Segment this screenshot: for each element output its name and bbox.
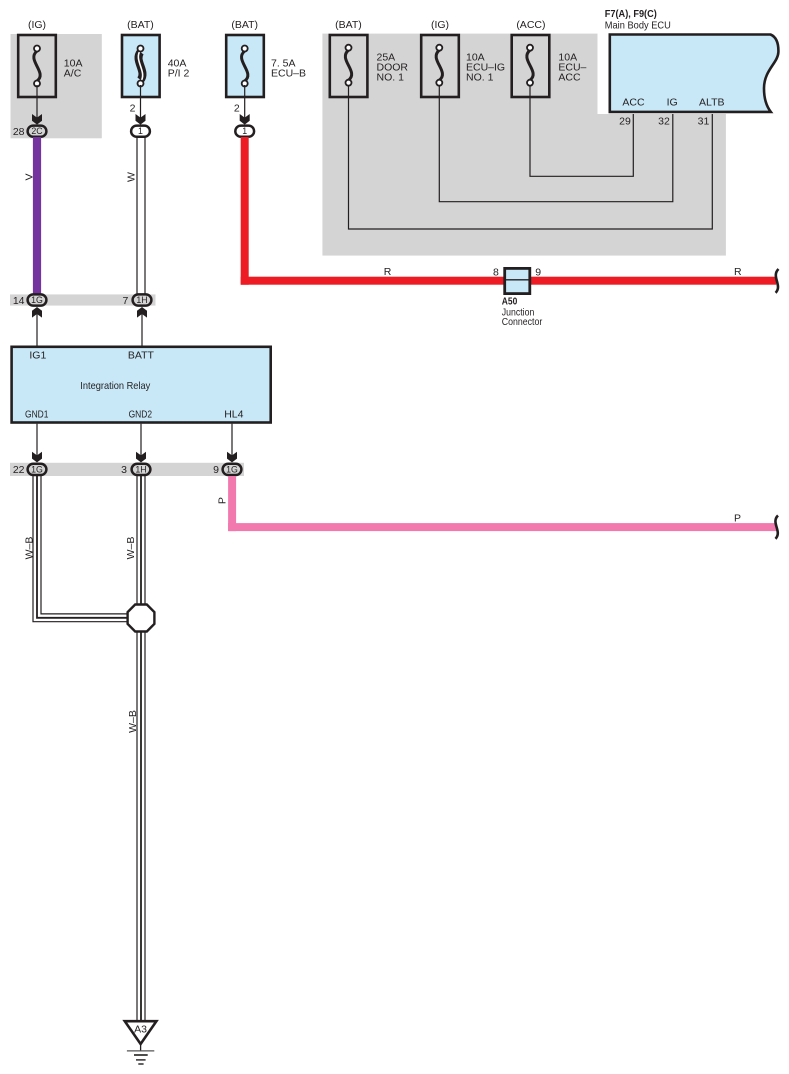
gray band behind connectors 22(1G) 3(1H) 9(1G) [10, 463, 244, 476]
svg-text:GND2: GND2 [129, 408, 153, 420]
svg-text:(IG): (IG) [28, 19, 46, 31]
gray band behind connectors 14(1G) 7(1H) [10, 294, 156, 305]
svg-text:2: 2 [130, 103, 136, 115]
svg-text:(BAT): (BAT) [127, 19, 154, 31]
svg-text:(ACC): (ACC) [516, 19, 545, 31]
svg-text:8: 8 [493, 266, 499, 278]
svg-text:(BAT): (BAT) [231, 19, 258, 31]
svg-text:W–B: W–B [127, 710, 139, 733]
wire fuse F3 pin 2 to connector 1 with arrow [234, 85, 250, 125]
svg-text:IG1: IG1 [29, 350, 46, 362]
svg-text:3: 3 [121, 464, 127, 476]
fuse F2 40A P/I 2 (BAT) [122, 19, 189, 97]
white backing behind Main Body ECU [598, 30, 789, 114]
connector 1 (below 40A fuse) [131, 126, 150, 137]
wire red R from connector 1 to right edge [241, 137, 777, 285]
svg-text:9: 9 [535, 266, 541, 278]
svg-text:Main Body ECU: Main Body ECU [605, 20, 671, 32]
junction J1 (octagon splice) [128, 605, 155, 632]
svg-text:R: R [384, 266, 392, 278]
junction connector A50 [493, 266, 543, 328]
svg-text:1: 1 [138, 126, 143, 136]
svg-text:ECU–B: ECU–B [271, 68, 306, 80]
wire W-B from junction J1 to ground A3 [127, 631, 145, 1020]
ECU pin numbers 29 32 31 [619, 115, 709, 127]
svg-text:NO. 1: NO. 1 [466, 72, 494, 84]
connector 1 (below 7.5A fuse) [235, 126, 254, 137]
svg-text:1G: 1G [31, 295, 43, 305]
svg-text:1: 1 [242, 126, 247, 136]
svg-text:1H: 1H [136, 295, 147, 305]
wire relay HL4 down to 9(1G) with arrow [227, 424, 237, 463]
fuse F1 10A A/C (IG) [18, 19, 82, 97]
svg-text:ACC: ACC [622, 97, 645, 109]
Main Body ECU box U1 [610, 35, 779, 112]
wire from ECU-ACC fuse to ECU pin 29 [530, 85, 633, 176]
fuse F4 25A DOOR NO.1 (BAT) [330, 19, 409, 97]
gray background panel fuse block (25A/10A/10A fuses) [322, 34, 726, 256]
svg-text:1G: 1G [31, 464, 43, 474]
svg-text:NO. 1: NO. 1 [377, 72, 405, 84]
svg-text:BATT: BATT [128, 350, 155, 362]
wire white W from 1 to 1H [126, 137, 146, 294]
svg-text:32: 32 [658, 115, 670, 127]
svg-text:IG: IG [667, 97, 678, 109]
svg-text:W–B: W–B [24, 537, 36, 560]
svg-text:1H: 1H [135, 464, 146, 474]
wire from DOOR fuse to ECU pin 31 [349, 85, 713, 229]
svg-text:Integration Relay: Integration Relay [80, 380, 151, 392]
svg-text:2C: 2C [31, 126, 43, 136]
svg-text:29: 29 [619, 115, 631, 127]
svg-text:Connector: Connector [502, 316, 543, 328]
svg-text:P: P [217, 497, 229, 504]
svg-text:31: 31 [698, 115, 710, 127]
svg-text:ALTB: ALTB [699, 97, 724, 109]
wire purple V from 2C to 1G [23, 137, 41, 294]
wire fuse F1 to connector 2C with arrow [32, 85, 42, 125]
connector 22 (1G) [13, 464, 47, 476]
connector 3 (1H) [121, 464, 150, 476]
svg-text:1G: 1G [226, 464, 238, 474]
wire pink P from 9(1G) to right edge [217, 476, 777, 531]
wire relay GND1 down to 22(1G) with arrow [32, 424, 42, 463]
svg-text:7: 7 [122, 295, 128, 307]
connector 7 (1H) [122, 294, 151, 306]
fuse F5 10A ECU-IG NO.1 (IG) [421, 19, 505, 97]
wire fuse F2 pin 2 to connector 1 with arrow [130, 85, 146, 125]
svg-text:P/I 2: P/I 2 [168, 68, 190, 80]
svg-text:R: R [734, 266, 742, 278]
fuse F6 10A ECU-ACC (ACC) [512, 19, 587, 97]
wire from ECU-IG fuse to ECU pin 32 [439, 85, 673, 202]
svg-text:W: W [126, 172, 138, 182]
svg-text:(IG): (IG) [431, 19, 449, 31]
wire W-B from 22(1G) to junction J1 [24, 476, 129, 622]
pink wire continuation squiggle at right [775, 516, 778, 539]
svg-text:F7(A), F9(C): F7(A), F9(C) [605, 8, 657, 20]
svg-text:14: 14 [13, 295, 25, 307]
fuse F3 7.5A ECU-B (BAT) [226, 19, 306, 97]
ground A3 [125, 1021, 157, 1064]
connector 14 (1G) [13, 294, 47, 306]
svg-text:HL4: HL4 [224, 408, 243, 420]
svg-text:28: 28 [13, 126, 25, 138]
svg-text:2: 2 [234, 103, 240, 115]
svg-text:A3: A3 [134, 1024, 147, 1036]
connector 28 (2C) [13, 126, 47, 138]
svg-text:22: 22 [13, 464, 25, 476]
svg-text:V: V [23, 173, 35, 180]
wire relay IG1 up to 1G with arrow [32, 307, 42, 346]
svg-text:9: 9 [213, 464, 219, 476]
red wire continuation squiggle at right [776, 269, 779, 293]
gray background panel behind A/C fuse [11, 34, 102, 138]
svg-text:W–B: W–B [125, 537, 137, 560]
wire W-B from 3(1H) to junction J1 [125, 476, 145, 605]
svg-text:(BAT): (BAT) [335, 19, 362, 31]
connector 9 (1G) [213, 464, 241, 476]
Main Body ECU label F7(A), F9(C) [605, 8, 671, 31]
svg-text:GND1: GND1 [25, 408, 49, 420]
wire relay GND2 down to 3(1H) with arrow [136, 424, 146, 463]
svg-text:A/C: A/C [64, 68, 82, 80]
wire relay BATT up to 1H with arrow [137, 307, 147, 346]
Integration Relay box [12, 347, 271, 423]
svg-text:ACC: ACC [558, 72, 581, 84]
svg-text:P: P [734, 513, 741, 525]
